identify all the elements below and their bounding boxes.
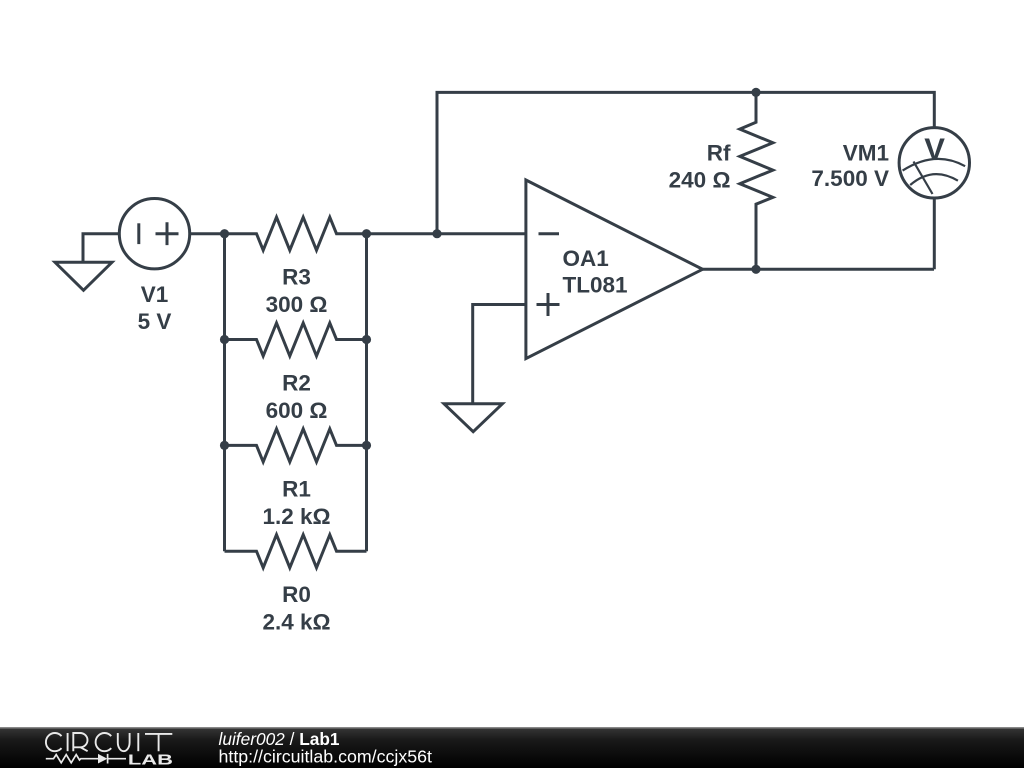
wire op-amp output [703, 268, 934, 271]
label Rf value 240 ohm [669, 168, 731, 193]
wire op-amp non-inverting input to ground [473, 305, 526, 404]
CircuitLab logo resistor-diode glyph [46, 754, 126, 764]
svg-text:V: V [924, 132, 945, 167]
node D junction (top of Rf) [751, 88, 760, 97]
label R2 [282, 371, 311, 396]
node A junction [220, 229, 229, 238]
label R1 value 1.2 kohm [262, 504, 330, 529]
svg-text:http://circuitlab.com/ccjx56t: http://circuitlab.com/ccjx56t [219, 747, 433, 767]
label OA1 [563, 246, 609, 271]
resistor R1 [225, 429, 367, 462]
wire right bus [365, 234, 368, 552]
svg-text:2.4 kΩ: 2.4 kΩ [262, 610, 330, 635]
footer title luifer002 / Lab1 [219, 729, 340, 749]
svg-text:5 V: 5 V [138, 309, 172, 334]
junction R2 right [362, 335, 371, 344]
label R1 [282, 476, 311, 501]
svg-text:600 Ω: 600 Ω [266, 398, 328, 423]
junction R1 right [362, 441, 371, 450]
wire node C to op-amp inverting input [437, 232, 526, 235]
label VM1 value 7.500 V [811, 166, 889, 191]
resistor R3 [225, 217, 367, 250]
label R0 value 2.4 kohm [262, 610, 330, 635]
op-amp OA1 [526, 180, 703, 359]
node C junction (feedback tap) [432, 229, 441, 238]
wire V1 to node A [190, 232, 225, 235]
resistor R0 [225, 535, 367, 568]
voltmeter VM1 [899, 128, 969, 270]
label R2 value 600 ohm [266, 398, 328, 423]
label OA1 type TL081 [563, 272, 628, 297]
label R3 [282, 265, 311, 290]
footer url [219, 747, 433, 767]
svg-text:LAB: LAB [128, 752, 173, 768]
footer bar [0, 727, 1024, 768]
label V1 [141, 282, 169, 307]
svg-text:OA1: OA1 [563, 246, 609, 271]
svg-text:R0: R0 [282, 582, 311, 607]
label R3 value 300 ohm [266, 292, 328, 317]
svg-text:R3: R3 [282, 265, 311, 290]
svg-text:240 Ω: 240 Ω [669, 168, 731, 193]
junction R2 left [220, 335, 229, 344]
svg-text:V1: V1 [141, 282, 169, 307]
CircuitLab logo LAB [128, 752, 173, 768]
node B junction (R3 right) [362, 229, 371, 238]
ground GND1 [55, 262, 112, 290]
resistor R2 [225, 323, 367, 356]
label V1 value 5 V [138, 309, 172, 334]
label R0 [282, 582, 311, 607]
wire left bus [223, 234, 226, 552]
wire node B to node C [367, 232, 438, 235]
svg-text:7.500 V: 7.500 V [811, 166, 889, 191]
svg-text:300 Ω: 300 Ω [266, 292, 328, 317]
ground GND2 [444, 404, 502, 432]
svg-text:Rf: Rf [707, 141, 731, 166]
node E junction (output / Rf bottom) [751, 265, 760, 274]
ground GND1 wire from V1 [83, 234, 119, 263]
CircuitLab logo CIRCUIT (hand-drawn thin letters) [46, 733, 172, 751]
svg-text:VM1: VM1 [843, 140, 889, 165]
label VM1 [843, 140, 889, 165]
junction R1 left [220, 441, 229, 450]
svg-text:R2: R2 [282, 371, 311, 396]
svg-text:R1: R1 [282, 476, 311, 501]
svg-text:1.2 kΩ: 1.2 kΩ [262, 504, 330, 529]
wire feedback top [437, 92, 934, 233]
voltage source V1 [119, 199, 189, 269]
resistor Rf [740, 92, 773, 269]
svg-text:TL081: TL081 [563, 272, 628, 297]
label Rf [707, 141, 731, 166]
